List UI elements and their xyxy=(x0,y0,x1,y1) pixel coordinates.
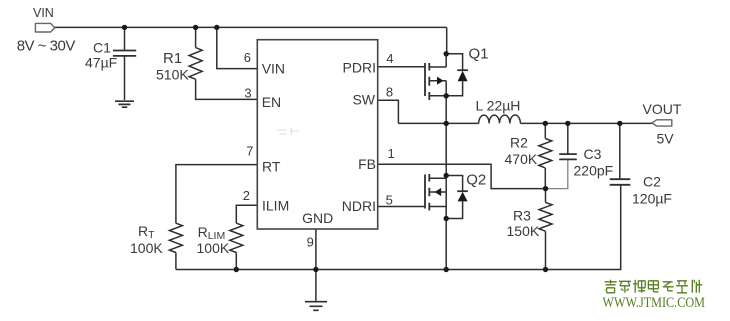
svg-text:C2: C2 xyxy=(643,174,661,190)
svg-text:R3: R3 xyxy=(513,208,531,224)
svg-text:2: 2 xyxy=(243,188,250,203)
svg-text:VIN: VIN xyxy=(33,6,54,20)
svg-text:5: 5 xyxy=(386,192,393,207)
svg-text:5V: 5V xyxy=(657,131,675,147)
svg-text:3: 3 xyxy=(244,85,251,100)
svg-text:C3: C3 xyxy=(584,146,602,162)
svg-text:RT: RT xyxy=(262,159,281,175)
svg-text:L 22µH: L 22µH xyxy=(476,98,521,114)
svg-text:R2: R2 xyxy=(510,135,528,151)
svg-text:510K: 510K xyxy=(156,67,189,83)
svg-text:470K: 470K xyxy=(505,151,538,167)
svg-text:9: 9 xyxy=(307,234,314,249)
svg-text:Q2: Q2 xyxy=(466,172,486,189)
svg-text:NDRI: NDRI xyxy=(342,198,376,214)
svg-text:R1: R1 xyxy=(163,50,182,67)
svg-text:150K: 150K xyxy=(507,223,540,239)
svg-text:1: 1 xyxy=(388,146,395,161)
svg-text:FB: FB xyxy=(358,156,376,172)
svg-text:C1: C1 xyxy=(93,40,111,56)
svg-text:120µF: 120µF xyxy=(632,191,672,207)
svg-text:8: 8 xyxy=(386,85,393,100)
svg-text:VIN: VIN xyxy=(262,61,285,77)
svg-text:47µF: 47µF xyxy=(85,55,117,71)
svg-text:8V ~ 30V: 8V ~ 30V xyxy=(17,38,76,55)
svg-text:6: 6 xyxy=(244,50,251,65)
svg-text:VOUT: VOUT xyxy=(643,101,682,117)
svg-text:100K: 100K xyxy=(197,240,230,256)
svg-text:100K: 100K xyxy=(130,240,163,256)
svg-text:WWW.JTMIC.COM: WWW.JTMIC.COM xyxy=(603,295,706,311)
svg-text:GND: GND xyxy=(302,210,333,226)
svg-text:PDRI: PDRI xyxy=(343,60,376,76)
svg-text:ILIM: ILIM xyxy=(262,198,289,214)
svg-text:4: 4 xyxy=(386,51,393,66)
svg-text:EN: EN xyxy=(262,94,281,110)
svg-text:220pF: 220pF xyxy=(574,163,614,179)
svg-text:7: 7 xyxy=(246,143,253,158)
svg-text:Q1: Q1 xyxy=(469,46,489,63)
svg-text:SW: SW xyxy=(352,92,375,108)
